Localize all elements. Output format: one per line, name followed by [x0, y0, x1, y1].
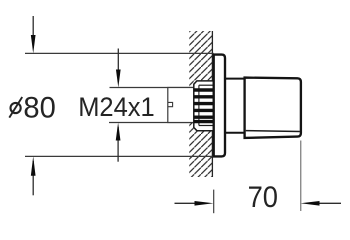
wall face line	[211, 31, 213, 177]
phi80 arrow top stem	[32, 16, 34, 48]
svg-text:70: 70	[248, 181, 278, 214]
M24x1 arrow bottom head	[116, 123, 121, 141]
wall section hatching upper block	[189, 31, 212, 81]
thread crest stripe 2	[194, 95, 214, 98]
svg-text:80: 80	[23, 92, 55, 125]
threaded connector outline with chamfered left corners	[194, 81, 214, 131]
thread chamfer shoulder lower line	[199, 125, 214, 127]
thread crest stripe 3	[194, 102, 214, 105]
70 dimension left extension dash	[213, 190, 215, 214]
phi80 arrow top head	[31, 35, 36, 53]
thread chamfer shoulder upper line	[199, 84, 214, 86]
70 arrow right stem	[318, 202, 341, 204]
dimension extension line M24x1 lower	[109, 122, 199, 124]
thread chamfer vertical boundary	[198, 85, 200, 125]
svg-text:M24x1: M24x1	[78, 92, 155, 122]
wall section hatching strip below valve rectangle	[189, 123, 194, 131]
thread crest stripe 4	[194, 109, 214, 112]
M24x1 arrow top stem	[117, 49, 119, 83]
handle body white mask	[245, 78, 301, 138]
dimension extension line phi80 upper	[25, 52, 214, 54]
thread crest stripe 1	[194, 88, 214, 91]
phi80 arrow bottom stem	[32, 161, 34, 195]
70 arrow left stem	[175, 202, 198, 204]
dimension text phi80 diameter symbol and 80	[11, 103, 21, 113]
M24x1 arrow top head	[116, 70, 121, 88]
notch on valve body left edge	[168, 102, 173, 106]
neck ring bottom edge	[225, 132, 245, 134]
concealed valve body rectangle behind wall	[168, 88, 194, 123]
70 arrow right head	[301, 201, 320, 206]
wall flange escutcheon	[214, 55, 225, 157]
phi80 arrow bottom head	[31, 156, 36, 175]
dimension extension line phi80 lower	[25, 155, 214, 157]
wall section hatching strip above valve rectangle	[189, 81, 194, 88]
handle body outline	[245, 78, 301, 138]
dimension extension line M24x1 upper	[110, 87, 200, 89]
handle body inner bottom line	[246, 130, 300, 133]
70 arrow left head	[195, 201, 214, 206]
neck ring top edge	[225, 78, 245, 80]
threaded connector M24x1 white mask	[194, 81, 214, 131]
thread crest stripe 5	[194, 115, 214, 118]
70 dimension right extension line	[300, 141, 302, 212]
wall section hatching lower block	[189, 131, 212, 177]
thread crest stripe 6	[194, 120, 214, 123]
M24x1 arrow bottom stem	[117, 127, 119, 162]
